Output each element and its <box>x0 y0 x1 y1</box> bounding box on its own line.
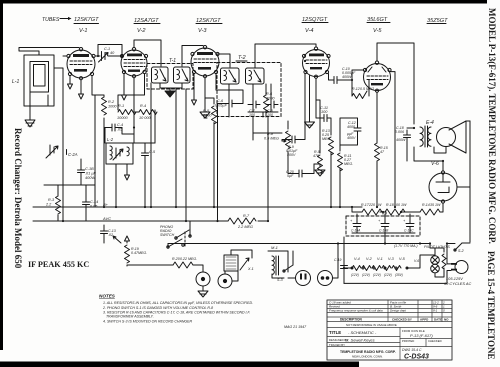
wire filter chain <box>352 207 420 214</box>
wire T2 secondary to V4 top cap <box>255 44 316 68</box>
arrow V3 left pin <box>192 100 197 105</box>
wire R3 to B+ <box>44 185 95 221</box>
resistor R17 220 1W <box>361 203 382 215</box>
svg-text:2000: 2000 <box>265 97 275 101</box>
capacitor C13 <box>101 225 116 240</box>
resistor R5 1000 <box>203 106 217 124</box>
wire E4 primary bottom <box>414 147 442 161</box>
capacitor C7 <box>248 101 260 117</box>
phono pickup X1 <box>224 255 254 271</box>
svg-text:NOTES: NOTES <box>99 294 116 299</box>
capacitor C4 <box>105 123 123 132</box>
wire R19 bottom to R20 <box>127 265 173 266</box>
wire C12 top <box>340 118 358 139</box>
wire J2 to pickup <box>225 250 252 281</box>
svg-text:Design dept: Design dept <box>390 309 406 313</box>
wire R11 legs <box>340 137 358 207</box>
motor coil M1 <box>268 245 293 282</box>
svg-text:MAG 21 1947: MAG 21 1947 <box>284 325 307 329</box>
resistor R15 <box>375 143 388 161</box>
wire V2 cathode to L2 <box>133 78 135 143</box>
svg-text:V-4: V-4 <box>305 28 314 34</box>
wire V1 cathode down <box>69 76 71 84</box>
resistor R13 <box>322 129 334 155</box>
svg-text:(35V): (35V) <box>395 273 403 277</box>
TITLE BLOCK <box>327 300 452 361</box>
ground bus <box>168 243 430 245</box>
wire R5 top bottom <box>205 98 214 207</box>
ground V3 cathode <box>200 112 210 118</box>
svg-text:P-13 (F-617): P-13 (F-617) <box>410 333 433 338</box>
trimmer capacitor C2A <box>46 145 78 158</box>
wire V4 diode leg ground <box>309 76 311 123</box>
right rail <box>469 121 471 242</box>
wire lamp branch <box>430 244 444 278</box>
capacitor C6 <box>215 99 237 108</box>
svg-text:0.47MEG.: 0.47MEG. <box>131 251 147 255</box>
svg-text:Frequency response speaker & c: Frequency response speaker & coil data <box>329 309 383 313</box>
ground T1 <box>165 91 175 97</box>
svg-text:R-6: R-6 <box>266 92 273 96</box>
svg-text:100 1W: 100 1W <box>394 203 407 207</box>
wire M1 to plug <box>272 251 296 278</box>
TOP-LABELS <box>42 17 448 34</box>
svg-text:V-1: V-1 <box>79 28 88 34</box>
motor plug P1 <box>296 271 311 286</box>
output transformer E4 and speaker <box>420 120 434 147</box>
wire C6 row <box>216 90 243 221</box>
svg-text:MODEL P-13(F-617). TEMPLETONE: MODEL P-13(F-617). TEMPLETONE RADIO MFG.… <box>487 8 497 244</box>
switch near R19 <box>113 236 121 243</box>
svg-text:MEG.: MEG. <box>322 137 331 141</box>
svg-text:4. SWITCH S-3 IS MOUNTED ON: 4. SWITCH S-3 IS MOUNTED ON RECORD CHANG… <box>103 319 193 323</box>
svg-text:V-3: V-3 <box>388 257 395 261</box>
svg-text:NOT RESPONSIBLE IN USAGE ABOVE: NOT RESPONSIBLE IN USAGE ABOVE <box>346 323 397 327</box>
svg-text:TEMPLETONE RADIO MFG. CORP.: TEMPLETONE RADIO MFG. CORP. <box>340 350 396 354</box>
svg-text:(12V): (12V) <box>351 273 359 277</box>
svg-text:- SCHEMATIC -: - SCHEMATIC - <box>348 330 377 335</box>
wire V2 top cap to T1 <box>134 40 161 66</box>
ground antenna <box>25 106 35 127</box>
wire C9 to V4 grid <box>300 74 305 140</box>
wire V6 plate <box>442 161 444 171</box>
wire filter caps bus <box>352 233 415 244</box>
capacitor C19 <box>341 255 348 269</box>
svg-text:100: 100 <box>267 113 273 117</box>
svg-text:400W: 400W <box>342 75 352 79</box>
svg-text:AVC: AVC <box>102 216 111 221</box>
svg-text:IF PEAK 455 KC: IF PEAK 455 KC <box>28 260 89 269</box>
resistor R12 <box>352 87 374 99</box>
svg-text:E-4: E-4 <box>426 120 434 126</box>
wire C18 taps <box>407 128 414 161</box>
IF transformer T1 <box>147 58 193 89</box>
svg-text:APPD: APPD <box>420 318 429 322</box>
svg-text:L-1: L-1 <box>12 79 19 85</box>
svg-text:12SK7GT: 12SK7GT <box>74 17 99 23</box>
wire AC hot <box>447 244 451 264</box>
svg-text:0.006: 0.006 <box>395 130 404 134</box>
oscillator coil L2 <box>106 137 133 164</box>
resistor R2 1000 <box>102 97 118 115</box>
svg-text:R-3: R-3 <box>48 198 55 202</box>
wire V1 left pin <box>63 55 67 57</box>
wire left screen rail <box>94 95 96 207</box>
svg-text:(12V): (12V) <box>362 273 370 277</box>
svg-text:8-1: 8-1 <box>433 309 438 313</box>
wire C1B stubs <box>80 159 82 185</box>
svg-text:10000: 10000 <box>117 116 128 120</box>
wire V1 plate to V2 <box>95 45 122 57</box>
wire T1 legs to B+ <box>176 89 186 221</box>
capacitor C18 <box>395 126 411 143</box>
svg-text:C-DS43: C-DS43 <box>404 354 429 361</box>
ground R9 <box>315 170 325 176</box>
svg-text:NEW LONDON, CONN.: NEW LONDON, CONN. <box>352 355 383 359</box>
svg-text:R-20: R-20 <box>172 257 180 261</box>
wire V1 screen to R2 <box>92 76 104 97</box>
svg-text:60 CYCLES AC: 60 CYCLES AC <box>444 281 472 286</box>
svg-text:220 1W: 220 1W <box>368 203 382 207</box>
resistor R3 <box>45 196 61 214</box>
resistor R9 470 <box>313 150 323 173</box>
capacitor C14 <box>83 197 99 209</box>
arrow V1 suppressor <box>79 94 84 99</box>
wire T1 secondary to V3 cap <box>182 46 203 67</box>
svg-text:C-14: C-14 <box>90 200 98 204</box>
svg-text:CHECKED BY: CHECKED BY <box>392 318 412 322</box>
svg-text:R-18: R-18 <box>386 203 394 207</box>
svg-text:R-2: R-2 <box>108 100 115 104</box>
electrolytic C16C <box>403 214 414 233</box>
svg-text:CHECKED: CHECKED <box>428 339 442 343</box>
svg-text:100: 100 <box>321 110 328 114</box>
wire speaker top to rail <box>466 120 470 122</box>
svg-text:(12V): (12V) <box>384 273 392 277</box>
svg-text:(1.7V 770 MA.): (1.7V 770 MA.) <box>394 244 418 248</box>
wire V3 plate to T2 <box>218 54 231 67</box>
resistor R14 35 1W <box>420 203 441 215</box>
svg-text:1000: 1000 <box>108 105 117 109</box>
svg-text:X-1: X-1 <box>247 267 254 271</box>
svg-text:(12V): (12V) <box>373 273 381 277</box>
wire pot wiper to C9 <box>282 140 287 142</box>
tube V6 35Z5GT rectifier <box>429 161 457 203</box>
wire T2 cap bus <box>248 112 278 117</box>
dashed box filter caps <box>346 216 420 236</box>
svg-text:PAGE 15-4 TEMPLETONE: PAGE 15-4 TEMPLETONE <box>486 251 496 360</box>
wire V3 pins down <box>194 74 216 112</box>
svg-text:C-16B: C-16B <box>379 229 389 233</box>
capacitor C1B <box>78 165 97 180</box>
tube V4 12SQ7GT <box>302 47 330 78</box>
wire filament to lamps <box>407 255 435 268</box>
wire V2 right pin to R1 R4 <box>118 74 155 143</box>
ballast resistor <box>442 254 446 269</box>
svg-text:R-1: R-1 <box>118 104 124 108</box>
svg-text:C-6: C-6 <box>217 99 224 103</box>
wire C4 branch <box>105 128 134 144</box>
svg-text:R-4: R-4 <box>140 104 146 108</box>
svg-text:2.2 MEG: 2.2 MEG <box>237 225 253 229</box>
wire R19 top <box>126 241 128 243</box>
resistor R6 2000 <box>264 92 276 113</box>
svg-text:R-7: R-7 <box>243 214 250 218</box>
loop antenna L1 <box>12 55 54 106</box>
svg-text:0.05µF: 0.05µF <box>215 104 228 108</box>
arrow L2 bottom <box>125 175 130 180</box>
resistor R4 10000 <box>139 104 157 120</box>
pilot lights <box>424 245 450 273</box>
svg-text:TITLE: TITLE <box>329 330 341 335</box>
svg-text:400W: 400W <box>396 138 406 142</box>
capacitor C9 <box>286 136 300 157</box>
trimmer capacitor C1 <box>99 47 116 62</box>
svg-text:TRANSFORMER ASSEMBLY.: TRANSFORMER ASSEMBLY. <box>106 314 154 318</box>
svg-text:4000: 4000 <box>347 125 355 129</box>
arrow V1 cathode <box>68 84 73 89</box>
svg-text:S-2: S-2 <box>458 249 464 253</box>
svg-text:L-2: L-2 <box>107 137 114 142</box>
svg-text:0.5 MEG: 0.5 MEG <box>264 137 279 141</box>
wire R9 cathode <box>316 78 320 153</box>
filament string labels <box>351 244 418 277</box>
wire C10 to V5 grid <box>337 70 363 80</box>
wire S1 to bus <box>168 221 190 247</box>
arrow V2 left <box>122 95 127 100</box>
svg-text:TRACED BY: TRACED BY <box>329 343 345 347</box>
wire diode load to volume pot <box>253 121 288 162</box>
svg-text:C-4: C-4 <box>117 123 123 127</box>
speaker <box>437 121 467 153</box>
svg-text:M-1: M-1 <box>271 245 278 250</box>
tube V2 12SA7GT <box>120 48 147 78</box>
electrolytic C16B <box>378 214 389 233</box>
wire P2 to bus <box>333 244 339 279</box>
wire T2 right leg to AVC <box>267 117 269 221</box>
svg-text:0.5 MEG: 0.5 MEG <box>360 87 374 91</box>
svg-text:V-4: V-4 <box>354 257 360 261</box>
wire C11 to R13 <box>327 118 331 207</box>
wire V5 plate loop <box>377 43 414 124</box>
svg-text:C-15A: C-15A <box>351 229 361 233</box>
svg-text:DWG 15-4 C: DWG 15-4 C <box>402 348 422 352</box>
svg-text:.02: .02 <box>108 233 113 237</box>
volume control R8 <box>264 131 291 149</box>
wire T1 primary bottom ground <box>160 83 182 91</box>
wire V5 screen <box>390 72 396 207</box>
svg-text:V-5: V-5 <box>373 28 382 34</box>
capacitor C8 <box>266 101 278 117</box>
svg-text:35 1W: 35 1W <box>430 203 441 207</box>
wire T1 left leg <box>150 83 152 207</box>
svg-text:V-3: V-3 <box>198 28 207 34</box>
wire chain left to C19 <box>344 237 352 283</box>
wire antenna tap <box>54 68 63 221</box>
svg-text:100: 100 <box>249 113 255 117</box>
arrow after TUBES <box>60 17 446 24</box>
arrow R19 top <box>125 236 130 241</box>
capacitor C11 <box>320 106 328 122</box>
wire R12 <box>352 80 369 96</box>
svg-text:V-6: V-6 <box>431 161 439 167</box>
svg-text:400W: 400W <box>85 176 95 180</box>
wire B+ bus <box>33 206 362 208</box>
svg-text:10 000: 10 000 <box>139 116 152 120</box>
wire L2 bottom <box>116 164 127 207</box>
wire V1 suppressor <box>80 80 82 94</box>
wire V5 cathode to R15 <box>376 92 378 207</box>
phono jack J1 <box>196 272 210 297</box>
svg-text:C-5: C-5 <box>149 150 156 154</box>
svg-text:PRINTED: PRINTED <box>402 339 414 343</box>
resistor R20 0.22MEG <box>172 257 197 268</box>
svg-text:Record Changer: Detrola Model: Record Changer: Detrola Model 650 <box>13 128 23 269</box>
svg-text:470: 470 <box>313 154 319 158</box>
resistor R11 <box>338 153 354 171</box>
svg-text:400V: 400V <box>347 136 356 140</box>
svg-text:C-1B: C-1B <box>85 167 94 171</box>
electrolytic C15A <box>350 214 361 233</box>
svg-text:MEG.: MEG. <box>344 162 353 166</box>
tube V3 12SK7GT <box>191 46 219 78</box>
svg-text:V-2: V-2 <box>366 257 373 261</box>
wire R4 right down to C5 <box>133 143 155 207</box>
svg-text:SWITCH: SWITCH <box>160 233 175 237</box>
resistor R7 2.2MEG <box>228 214 256 229</box>
svg-text:R-12: R-12 <box>352 87 360 91</box>
svg-text:S-3: S-3 <box>277 278 283 282</box>
capacitor C5 <box>142 148 157 161</box>
wire C13 bottom <box>103 240 105 243</box>
svg-text:TUBES: TUBES <box>42 17 60 23</box>
IF transformer T2 <box>217 55 281 117</box>
wire V6 right pin to rail <box>457 186 470 188</box>
capacitor C20 <box>286 170 307 178</box>
switch S2 <box>454 243 464 253</box>
svg-text:V-6: V-6 <box>414 259 419 263</box>
AC plug <box>444 261 472 287</box>
svg-text:2. PHONO SWITCH S-1 IS GANGED: 2. PHONO SWITCH S-1 IS GANGED WITH VOLUM… <box>102 306 213 310</box>
wire S2 <box>447 242 470 245</box>
ground V4 diode leg <box>305 122 315 128</box>
wire bottom AC bus <box>344 271 451 284</box>
resistor R19 0.47MEG <box>125 245 148 263</box>
wire T2 left leg down <box>252 117 254 133</box>
svg-text:DATE: DATE <box>434 318 442 322</box>
wire V4 plate to C10 <box>329 74 335 80</box>
wire V2 left pin down <box>123 74 125 95</box>
svg-text:V-1: V-1 <box>377 257 383 261</box>
svg-text:M. Sewell Keyes: M. Sewell Keyes <box>345 338 375 343</box>
wire C20 row <box>288 162 314 174</box>
svg-text:5µF: 5µF <box>287 174 294 178</box>
wire R20 right to J1 <box>193 265 203 272</box>
svg-text:NO: NO <box>444 318 449 322</box>
svg-text:C-16C: C-16C <box>404 229 414 233</box>
svg-text:C-2A: C-2A <box>68 152 78 157</box>
capacitor C10 coupling <box>334 67 356 84</box>
wire antenna to V1 grid cap <box>19 48 79 56</box>
NOTES block <box>99 294 307 330</box>
svg-text:1. ALL RESISTORS IN OHMS, ALL: 1. ALL RESISTORS IN OHMS, ALL CAPACITORS… <box>103 301 253 305</box>
motor socket P2 <box>318 271 333 286</box>
wire AVC bus <box>33 220 268 222</box>
tube V5 35L6GT <box>363 61 391 92</box>
phono jack J2 <box>218 274 232 288</box>
svg-text:0.22 MEG.: 0.22 MEG. <box>180 257 197 261</box>
wire T2 interior legs <box>229 84 271 117</box>
capacitor C12 <box>347 121 361 140</box>
wire V6 cathode to R14 <box>440 203 443 212</box>
tube V1 12SK7GT <box>67 48 95 80</box>
switch S1 phono-radio <box>160 225 191 248</box>
resistor R18 100 1W <box>385 203 407 215</box>
svg-text:R-14: R-14 <box>422 203 430 207</box>
wire V4 cathode branch <box>314 100 324 167</box>
svg-text:V-2: V-2 <box>137 28 146 34</box>
svg-text:V-5: V-5 <box>399 257 406 261</box>
wire R2 bottom to B+ <box>103 118 105 207</box>
resistor R1 10000 <box>117 104 136 120</box>
svg-text:2.2: 2.2 <box>45 203 52 207</box>
svg-text:DESCRIPTION: DESCRIPTION <box>340 318 362 322</box>
wire E4 secondary legs <box>434 147 446 153</box>
svg-text:T-2: T-2 <box>238 55 246 61</box>
